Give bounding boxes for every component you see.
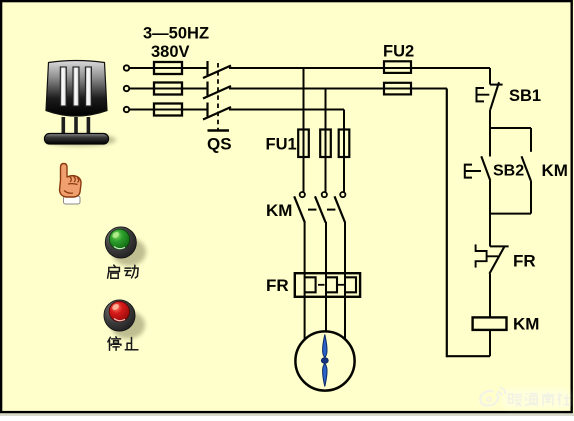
- KM main contact pole2: [315, 192, 327, 222]
- QS knife switch pole3: [203, 103, 231, 120]
- drop wire 1: [303, 68, 305, 192]
- thermal relay FR box: [295, 273, 360, 297]
- QS knife switch pole2: [203, 82, 231, 99]
- fuse FU1 pole1: [298, 130, 309, 158]
- label 停止 (stop): [108, 337, 138, 351]
- svg-text:FR: FR: [266, 276, 289, 295]
- wire coil to bottom: [489, 330, 491, 356]
- svg-text:KM: KM: [542, 161, 568, 180]
- watermark glow backdrop: [502, 389, 570, 409]
- FR trip contact (NC): [476, 244, 509, 273]
- phase terminal L2: [124, 86, 129, 91]
- phase terminal L1: [124, 65, 129, 70]
- svg-text:FU1: FU1: [266, 135, 297, 153]
- supply fuse pole1: [154, 62, 182, 74]
- contactor coil KM: [473, 317, 507, 330]
- svg-text:380V: 380V: [151, 43, 190, 61]
- FR heater element 2: [326, 277, 337, 292]
- svg-text:3—50HZ: 3—50HZ: [143, 25, 209, 43]
- wire phase3 bus: [229, 109, 344, 111]
- FR linkage dashes: [318, 284, 344, 286]
- red stop pushbutton: [104, 300, 145, 339]
- fuse FU1 pole2: [320, 130, 331, 158]
- wire SB2 to FR contact: [489, 181, 491, 247]
- QS linkage dashed line: [217, 63, 219, 130]
- watermark weibo icon: [480, 388, 505, 406]
- parallel branch top wire: [490, 127, 531, 129]
- wire L3 to QS: [130, 109, 208, 111]
- svg-text:FR: FR: [513, 251, 536, 270]
- FR heater element 1: [305, 277, 316, 292]
- KM main contact pole1: [294, 192, 305, 222]
- supply fuse pole3: [154, 104, 182, 116]
- watermark text 暖通南社: [509, 392, 571, 406]
- svg-text:QS: QS: [207, 135, 232, 154]
- control branch down from phase1: [489, 68, 491, 85]
- start button SB2 (NO): [465, 156, 491, 180]
- fuse FU2 a: [384, 61, 411, 73]
- motor feeder wire 2: [325, 222, 327, 341]
- bottom return wire: [447, 355, 490, 357]
- motor feeder wire 3: [344, 222, 346, 341]
- motor feeder wire 1: [304, 222, 306, 341]
- wire FR contact to coil: [489, 274, 491, 318]
- QS knife switch pole1: [203, 61, 231, 78]
- svg-text:FU2: FU2: [383, 42, 414, 60]
- svg-text:KM: KM: [266, 201, 292, 220]
- wire L1 to QS: [130, 67, 208, 69]
- FR heater element 3: [345, 277, 356, 292]
- fuse FU2 b: [384, 83, 411, 95]
- wire L2 to QS: [130, 88, 208, 90]
- drop wire 3: [343, 110, 345, 193]
- plug illustration: [44, 61, 116, 147]
- supply fuse pole2: [154, 83, 182, 95]
- stop button SB1 (NC): [477, 82, 503, 109]
- QS linkage bar: [208, 129, 230, 131]
- svg-text:KM: KM: [513, 314, 539, 333]
- KM linkage dashes: [308, 209, 335, 211]
- fuse FU1 pole3: [339, 130, 350, 158]
- pointing hand icon: [60, 164, 82, 205]
- left control return wire: [446, 89, 448, 358]
- motor M: [295, 331, 354, 390]
- wire SB1 to SB2: [489, 110, 491, 157]
- svg-text:SB2: SB2: [493, 162, 524, 179]
- green start pushbutton: [105, 227, 146, 266]
- label 启动 (start): [108, 265, 138, 278]
- parallel branch bottom wire: [490, 213, 531, 215]
- KM main contact pole3: [335, 192, 346, 222]
- drop wire 2: [325, 89, 327, 193]
- wire phase2 bus: [229, 88, 447, 90]
- svg-text:SB1: SB1: [509, 87, 541, 105]
- phase terminal L3: [124, 107, 129, 112]
- wire phase1 bus: [229, 67, 490, 69]
- KM auxiliary contact (NO): [522, 128, 532, 214]
